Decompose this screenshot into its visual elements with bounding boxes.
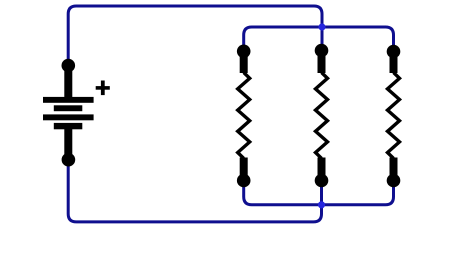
battery top lead <box>64 65 72 97</box>
wire bottom bus R1-R3 <box>244 181 394 205</box>
node R2 top <box>315 44 329 58</box>
R1 bottom lead <box>240 158 248 182</box>
node R1 bottom <box>237 174 251 188</box>
R2 zigzag <box>316 73 328 159</box>
battery + label <box>96 86 110 90</box>
R3 top lead <box>390 51 398 73</box>
node battery + terminal <box>62 59 76 73</box>
wire R2 bottom to battery- <box>68 160 321 222</box>
node R3 bottom <box>387 174 401 188</box>
node R3 top <box>387 45 401 59</box>
node R1 top <box>237 45 251 59</box>
wire battery+ to top-left corner to R2 top <box>68 6 322 66</box>
node R2 bottom <box>315 174 329 188</box>
resistor R2 <box>315 44 329 188</box>
battery bottom lead <box>64 128 72 160</box>
R2 bottom lead <box>318 158 326 182</box>
battery B1 <box>43 59 110 167</box>
R3 zigzag <box>388 73 400 159</box>
R1 top lead <box>240 51 248 73</box>
wire top bus R1-R3 <box>244 27 394 51</box>
node battery - terminal <box>62 153 76 167</box>
R2 top lead <box>318 51 326 74</box>
resistor R3 <box>387 45 401 188</box>
R1 zigzag <box>238 73 250 159</box>
junction top <box>318 23 325 30</box>
junction bottom <box>318 201 325 208</box>
battery plate 3 long <box>43 114 94 120</box>
battery plate 2 short <box>54 105 83 111</box>
resistor R1 <box>237 45 251 188</box>
battery plate 1 long <box>43 97 94 103</box>
R3 bottom lead <box>390 158 398 182</box>
battery plate 4 short <box>54 123 83 129</box>
